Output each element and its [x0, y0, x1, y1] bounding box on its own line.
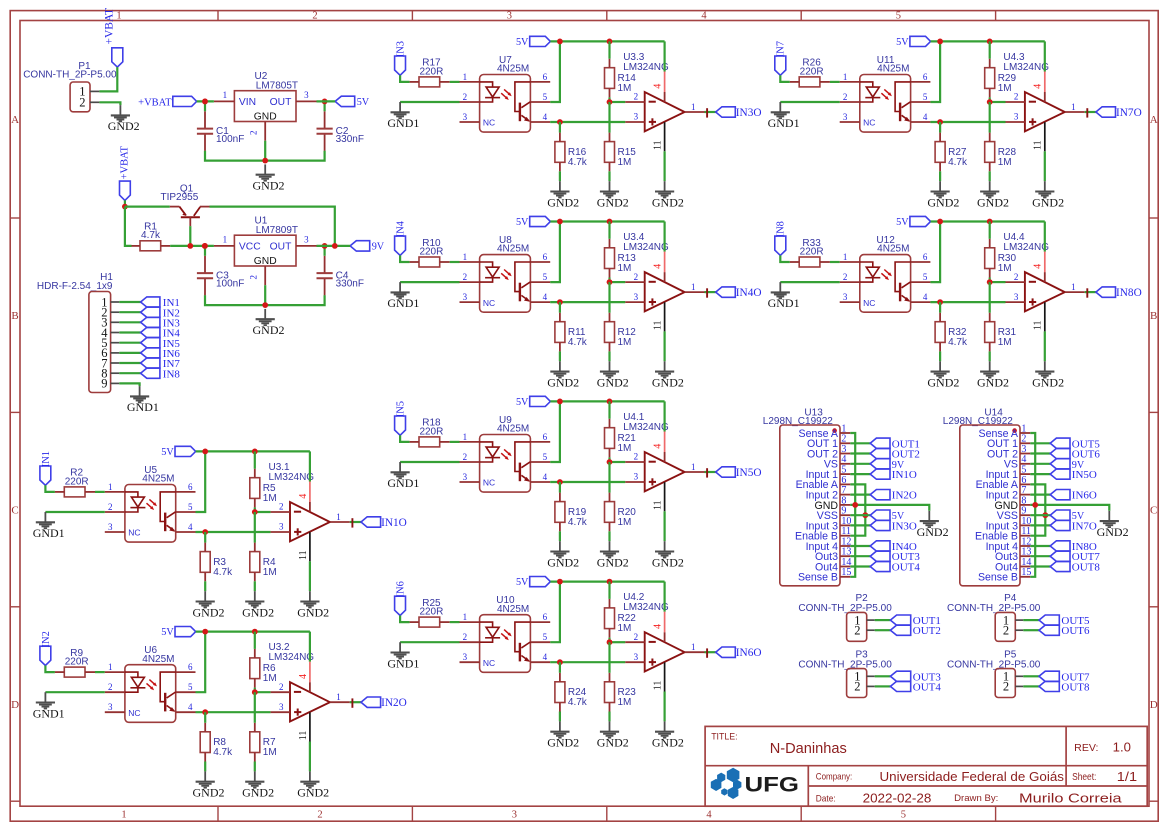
junction — [202, 709, 208, 715]
net flag 5V — [335, 96, 355, 106]
junction — [202, 99, 208, 105]
svg-text:Sense B: Sense B — [978, 572, 1018, 584]
svg-text:1M: 1M — [618, 83, 632, 94]
svg-text:4: 4 — [543, 652, 548, 662]
wire — [989, 102, 991, 133]
wire — [45, 511, 104, 513]
wire — [254, 692, 256, 723]
wire — [663, 511, 665, 541]
wire — [550, 401, 560, 462]
svg-text:1M: 1M — [618, 263, 632, 274]
wire — [1044, 41, 1046, 71]
net flag IN1O — [361, 517, 381, 527]
svg-text:IN7: IN7 — [776, 41, 787, 57]
resistor R15 — [605, 142, 615, 163]
svg-text:4: 4 — [706, 809, 712, 820]
resistor R13 — [605, 248, 615, 269]
net flag IN1 — [40, 466, 51, 485]
svg-text:GND2: GND2 — [652, 375, 684, 389]
wire — [350, 701, 361, 703]
svg-text:GND2: GND2 — [253, 323, 285, 337]
junction — [607, 279, 613, 285]
ground GND2 — [928, 511, 930, 521]
junction — [607, 579, 613, 585]
svg-text:9V: 9V — [372, 242, 385, 253]
wire — [663, 41, 665, 71]
ground GND1 — [44, 512, 46, 522]
wire — [550, 400, 664, 402]
svg-text:4: 4 — [188, 702, 193, 712]
svg-text:2: 2 — [312, 11, 317, 22]
svg-text:CONN-TH_2P-P5.00: CONN-TH_2P-P5.00 — [798, 659, 892, 670]
net flag +VBAT — [173, 96, 197, 106]
svg-text:4: 4 — [543, 292, 548, 302]
svg-text:GND1: GND1 — [768, 296, 800, 310]
net flag 5V — [175, 446, 196, 456]
wire — [608, 582, 610, 599]
wire — [1044, 222, 1046, 252]
svg-text:Company:: Company: — [816, 772, 853, 783]
wire — [875, 675, 891, 677]
junction — [202, 99, 208, 105]
svg-text:1M: 1M — [998, 157, 1012, 168]
ground GND2 — [609, 541, 611, 551]
svg-text:GND: GND — [254, 256, 277, 267]
net flag 5V — [870, 510, 890, 520]
svg-text:1M: 1M — [618, 517, 632, 528]
svg-text:GND2: GND2 — [108, 119, 140, 133]
wire — [125, 206, 170, 208]
svg-text:330nF: 330nF — [336, 134, 364, 145]
wire — [324, 101, 326, 111]
wire — [550, 481, 625, 483]
net flag OUT4 — [870, 561, 890, 571]
svg-text:4: 4 — [543, 472, 548, 482]
junction — [862, 512, 868, 518]
junction — [937, 299, 943, 305]
net flag IN8 — [141, 368, 160, 378]
svg-text:IN5O: IN5O — [736, 467, 762, 479]
junction — [262, 158, 268, 164]
svg-text:D: D — [1150, 699, 1158, 711]
junction — [607, 99, 613, 105]
svg-text:6: 6 — [543, 432, 548, 442]
ground GND2 — [664, 721, 666, 731]
resistor R33 — [799, 257, 820, 267]
net flag IN6 — [395, 596, 406, 615]
ground GND2 — [264, 164, 266, 174]
wire — [550, 582, 560, 643]
wire — [45, 666, 55, 673]
ground GND1 — [399, 102, 401, 112]
wire — [400, 616, 410, 623]
wire — [550, 40, 664, 42]
wire — [1030, 463, 1050, 465]
resistor R31 — [985, 322, 995, 343]
svg-text:4: 4 — [543, 112, 548, 122]
svg-text:NC: NC — [483, 118, 495, 128]
svg-text:6: 6 — [923, 252, 928, 262]
wire — [1030, 494, 1050, 496]
svg-text:GND2: GND2 — [1097, 525, 1129, 539]
svg-text:GND1: GND1 — [127, 400, 159, 414]
svg-text:4: 4 — [653, 444, 664, 449]
svg-text:5: 5 — [543, 92, 548, 102]
svg-text:2: 2 — [279, 502, 284, 512]
wire — [850, 473, 870, 475]
net flag 5V — [910, 216, 931, 226]
wire — [608, 282, 610, 313]
resistor R8 — [200, 732, 210, 753]
svg-text:IN6O: IN6O — [736, 647, 762, 659]
wire — [196, 450, 310, 452]
junction — [937, 219, 943, 225]
svg-text:GND2: GND2 — [597, 736, 629, 750]
svg-text:GND2: GND2 — [597, 375, 629, 389]
svg-text:TIP2955: TIP2955 — [160, 192, 198, 203]
wire — [99, 67, 117, 91]
svg-text:1M: 1M — [998, 263, 1012, 274]
svg-text:NC: NC — [483, 298, 495, 308]
svg-text:2: 2 — [108, 682, 113, 692]
net flag OUT6 — [1039, 625, 1059, 635]
svg-text:OUT: OUT — [270, 242, 292, 253]
svg-text:2: 2 — [843, 92, 848, 102]
wire — [850, 463, 870, 465]
junction — [557, 659, 563, 665]
wire — [119, 383, 139, 386]
svg-text:220R: 220R — [800, 246, 824, 257]
wire — [196, 630, 310, 632]
wire — [309, 632, 311, 662]
wire — [196, 451, 206, 512]
wire — [990, 281, 1006, 283]
wire — [125, 207, 132, 246]
wire — [1023, 685, 1039, 687]
ground GND2 — [264, 309, 266, 319]
ground GND2 — [1108, 511, 1110, 521]
svg-text:OUT8: OUT8 — [1072, 562, 1101, 574]
ground GND2 — [119, 105, 121, 115]
junction — [557, 219, 563, 225]
svg-text:+VBAT: +VBAT — [120, 145, 131, 179]
resistor R4 — [250, 552, 260, 573]
wire — [875, 629, 891, 631]
svg-text:3: 3 — [463, 112, 468, 122]
svg-text:1M: 1M — [263, 493, 277, 504]
svg-text:6: 6 — [543, 72, 548, 82]
wire — [930, 222, 940, 283]
svg-text:2: 2 — [279, 682, 284, 692]
wire — [559, 662, 561, 673]
ground GND1 — [779, 282, 781, 292]
wire — [1030, 514, 1050, 516]
wire — [610, 461, 626, 463]
svg-text:4.7k: 4.7k — [568, 157, 588, 168]
svg-text:3: 3 — [108, 702, 113, 712]
svg-text:GND2: GND2 — [547, 555, 579, 569]
svg-text:4.7k: 4.7k — [213, 567, 233, 578]
svg-text:IN4: IN4 — [396, 220, 407, 237]
svg-text:4: 4 — [1033, 264, 1044, 269]
net flag OUT1 — [890, 615, 910, 625]
svg-text:3: 3 — [843, 292, 848, 302]
svg-text:1M: 1M — [998, 337, 1012, 348]
wire — [1030, 545, 1050, 547]
resistor R7 — [250, 732, 260, 753]
svg-text:3: 3 — [1014, 292, 1019, 302]
net flag IN5O — [1050, 469, 1070, 479]
net flag +VBAT — [120, 181, 131, 200]
svg-text:GND1: GND1 — [33, 706, 65, 720]
svg-text:4N25M: 4N25M — [142, 654, 174, 665]
svg-text:IN6: IN6 — [396, 581, 407, 597]
junction — [322, 99, 328, 105]
wire — [1085, 291, 1096, 293]
svg-text:1: 1 — [336, 512, 341, 522]
wire — [309, 742, 311, 772]
wire — [850, 442, 870, 444]
resistor R29 — [985, 68, 995, 89]
wire — [170, 245, 214, 247]
wire — [850, 565, 870, 567]
svg-text:1: 1 — [463, 612, 468, 622]
net flag IN4O — [716, 287, 736, 297]
svg-text:OUT: OUT — [270, 97, 292, 108]
junction — [202, 449, 208, 455]
svg-text:C: C — [11, 504, 18, 516]
svg-text:4: 4 — [298, 674, 309, 679]
ground GND2 — [559, 721, 561, 731]
resistor R2 — [64, 487, 85, 497]
net flag IN4O — [870, 541, 890, 551]
svg-text:IN1: IN1 — [41, 451, 52, 467]
ground GND2 — [664, 541, 666, 551]
svg-text:LM324NG: LM324NG — [269, 472, 315, 483]
svg-text:4: 4 — [653, 84, 664, 89]
wire — [610, 281, 626, 283]
ground GND2 — [989, 181, 991, 191]
wire — [99, 102, 120, 105]
ground GND1 — [399, 462, 401, 472]
svg-text:4.7k: 4.7k — [568, 337, 588, 348]
svg-text:2: 2 — [843, 272, 848, 282]
svg-text:5V: 5V — [516, 577, 529, 588]
wire — [350, 521, 361, 523]
wire — [875, 619, 891, 621]
capacitor C3 — [204, 256, 206, 273]
svg-text:220R: 220R — [65, 657, 89, 668]
wire — [254, 632, 256, 649]
resistor R19 — [555, 502, 565, 523]
svg-text:GND2: GND2 — [917, 525, 949, 539]
junction — [557, 119, 563, 125]
svg-text:Sheet:: Sheet: — [1072, 771, 1096, 783]
svg-text:1: 1 — [843, 252, 848, 262]
junction — [252, 449, 258, 455]
svg-text:LM324NG: LM324NG — [1003, 242, 1049, 253]
svg-text:1M: 1M — [618, 623, 632, 634]
svg-text:Date:: Date: — [816, 793, 836, 804]
wire — [550, 121, 625, 123]
svg-text:GND2: GND2 — [547, 375, 579, 389]
svg-text:1M: 1M — [263, 567, 277, 578]
svg-text:220R: 220R — [65, 476, 89, 487]
svg-text:100nF: 100nF — [216, 134, 244, 145]
svg-text:2: 2 — [463, 452, 468, 462]
wire — [850, 555, 870, 557]
resistor R14 — [605, 68, 615, 89]
net flag IN2 — [141, 307, 160, 317]
wire — [559, 302, 561, 313]
wire — [705, 651, 716, 653]
wire — [931, 40, 1045, 42]
net flag +VBAT — [112, 48, 123, 67]
svg-text:6: 6 — [188, 482, 193, 492]
wire — [204, 101, 206, 111]
svg-text:GND1: GND1 — [768, 116, 800, 130]
svg-text:1M: 1M — [263, 747, 277, 758]
wire — [780, 75, 790, 82]
svg-text:2: 2 — [634, 272, 639, 282]
wire — [780, 255, 790, 262]
svg-text:4.7k: 4.7k — [141, 230, 161, 241]
wire — [550, 661, 625, 663]
svg-text:4: 4 — [188, 522, 193, 532]
net flag 9V — [870, 459, 890, 469]
ground GND2 — [1044, 181, 1046, 191]
resistor R10 — [419, 257, 440, 267]
wire — [119, 331, 140, 333]
svg-text:Drawn By:: Drawn By: — [954, 793, 998, 804]
svg-text:220R: 220R — [800, 66, 824, 77]
net flag OUT8 — [1039, 681, 1059, 691]
svg-text:REV:: REV: — [1074, 742, 1098, 754]
wire — [608, 222, 610, 239]
wire — [608, 41, 610, 58]
svg-text:Murilo Correia: Murilo Correia — [1019, 790, 1123, 805]
svg-text:5V: 5V — [161, 447, 174, 458]
svg-text:IN8: IN8 — [163, 368, 181, 380]
svg-text:4: 4 — [923, 292, 928, 302]
svg-text:3: 3 — [463, 292, 468, 302]
resistor R28 — [985, 142, 995, 163]
wire — [1023, 619, 1039, 621]
svg-text:HDR-F-2.54_1x9: HDR-F-2.54_1x9 — [37, 281, 113, 292]
net flag OUT2 — [870, 448, 890, 458]
resistor R32 — [935, 322, 945, 343]
wire — [550, 580, 664, 582]
wire — [204, 712, 206, 723]
wire — [400, 435, 410, 442]
resistor R26 — [799, 77, 820, 87]
svg-text:4N25M: 4N25M — [497, 604, 529, 615]
net flag IN6O — [716, 647, 736, 657]
ground GND1 — [779, 102, 781, 112]
wire — [210, 207, 335, 246]
svg-text:B: B — [1150, 310, 1157, 322]
svg-text:NC: NC — [863, 298, 875, 308]
wire — [1030, 505, 1109, 511]
wire — [255, 511, 271, 513]
svg-text:11: 11 — [653, 140, 664, 150]
junction — [607, 459, 613, 465]
net flag IN5 — [141, 338, 160, 348]
svg-text:1: 1 — [121, 809, 126, 820]
svg-text:6: 6 — [923, 72, 928, 82]
wire — [1030, 565, 1050, 567]
svg-text:4N25M: 4N25M — [497, 424, 529, 435]
svg-text:1M: 1M — [618, 697, 632, 708]
svg-text:CONN-TH_2P-P5.00: CONN-TH_2P-P5.00 — [23, 69, 117, 80]
junction — [1042, 512, 1048, 518]
resistor R6 — [250, 658, 260, 679]
junction — [987, 219, 993, 225]
svg-text:11: 11 — [1033, 320, 1044, 330]
net flag OUT7 — [1050, 551, 1070, 561]
ground GND1 — [139, 386, 141, 396]
wire — [875, 685, 891, 687]
svg-text:CONN-TH_2P-P5.00: CONN-TH_2P-P5.00 — [798, 603, 892, 614]
svg-text:GND1: GND1 — [387, 656, 419, 670]
svg-text:N-Daninhas: N-Daninhas — [770, 741, 847, 757]
wire — [705, 291, 716, 293]
wire — [559, 482, 561, 493]
wire — [400, 255, 410, 262]
net flag OUT2 — [890, 625, 910, 635]
svg-text:1: 1 — [336, 692, 341, 702]
net flag IN4 — [395, 236, 406, 255]
wire — [1023, 629, 1039, 631]
junction — [557, 399, 563, 405]
net flag 5V — [1050, 510, 1070, 520]
svg-text:OUT6: OUT6 — [1072, 449, 1101, 461]
wire — [124, 200, 126, 206]
wire — [705, 471, 716, 473]
net flag 5V — [910, 36, 931, 46]
svg-text:2: 2 — [854, 624, 860, 638]
svg-text:IN3O: IN3O — [736, 107, 762, 119]
junction — [332, 243, 338, 249]
wire — [1030, 433, 1035, 577]
svg-text:3: 3 — [463, 652, 468, 662]
junction — [252, 509, 258, 515]
svg-text:2: 2 — [1014, 272, 1019, 282]
svg-text:2: 2 — [463, 92, 468, 102]
svg-text:100nF: 100nF — [216, 278, 244, 289]
svg-text:GND2: GND2 — [297, 786, 329, 800]
wire — [204, 246, 206, 256]
ground GND2 — [204, 771, 206, 781]
wire — [1044, 331, 1046, 361]
svg-text:VCC: VCC — [239, 242, 261, 253]
junction — [987, 39, 993, 45]
ground GND2 — [559, 541, 561, 551]
svg-text:4: 4 — [923, 112, 928, 122]
wire — [45, 691, 104, 693]
svg-text:11: 11 — [653, 681, 664, 691]
junction — [252, 629, 258, 635]
svg-text:5V: 5V — [516, 397, 529, 408]
svg-text:1M: 1M — [998, 83, 1012, 94]
svg-text:4N25M: 4N25M — [497, 64, 529, 75]
wire — [939, 122, 941, 133]
svg-text:4: 4 — [298, 494, 309, 499]
junction — [252, 689, 258, 695]
svg-text:1M: 1M — [263, 673, 277, 684]
svg-text:OUT2: OUT2 — [913, 625, 941, 637]
wire — [1085, 111, 1096, 113]
